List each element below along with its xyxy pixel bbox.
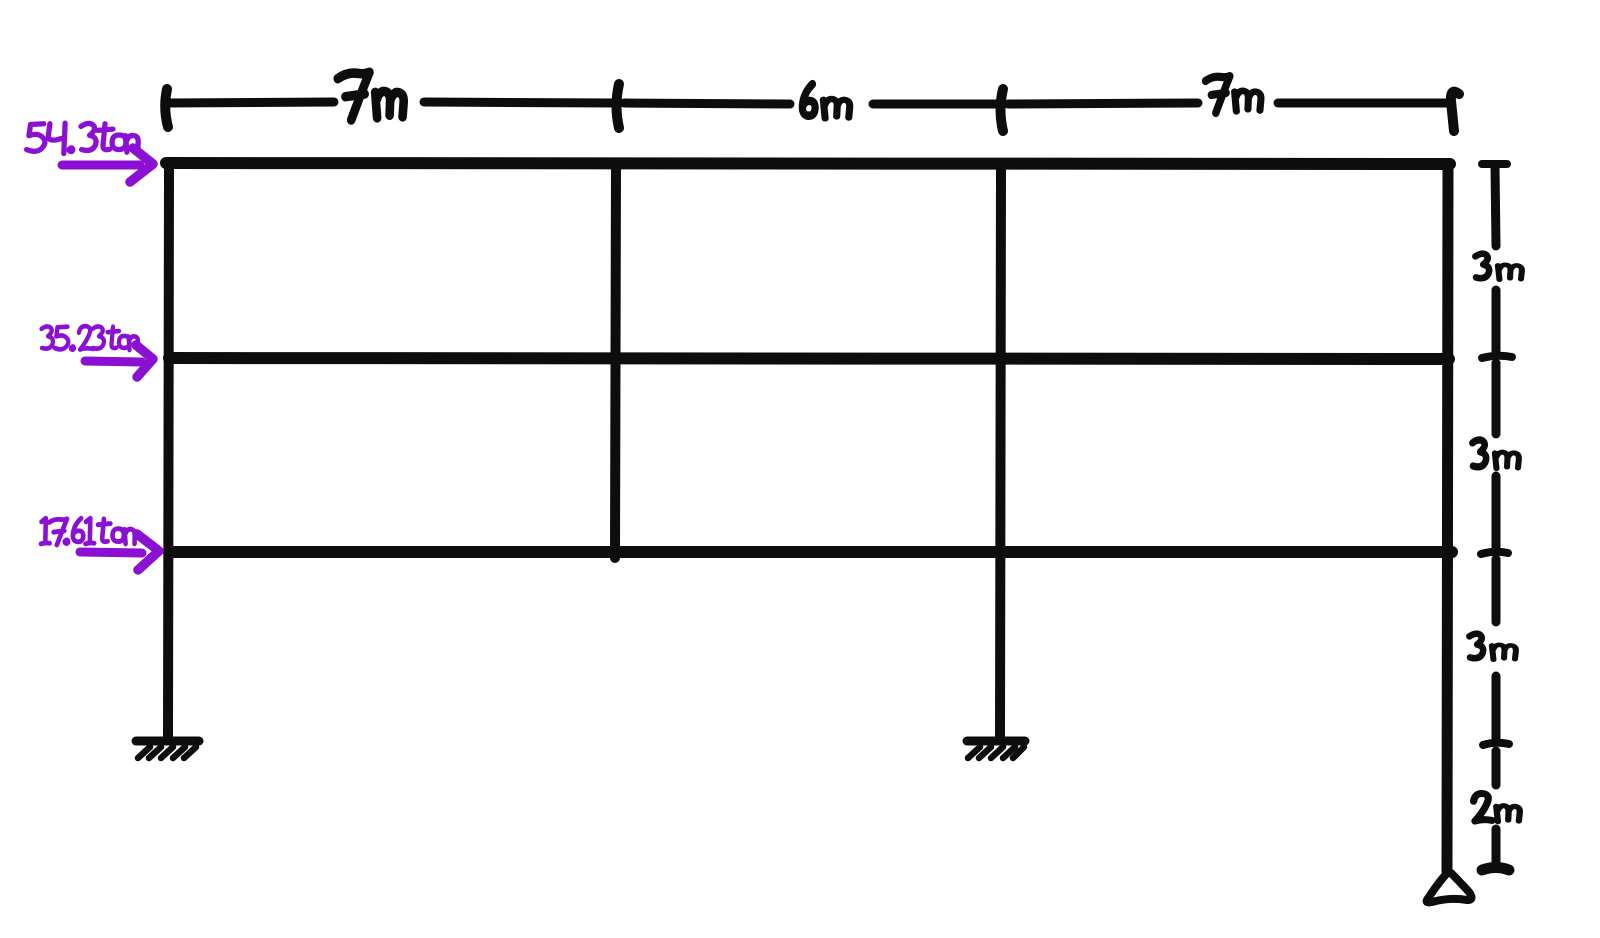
right dimension line segment 4b <box>1492 829 1501 863</box>
column C4 (right, x=1449) <box>1447 164 1448 871</box>
dimension label 3m (lower) <box>1469 634 1516 660</box>
right dimension line segment 4a <box>1492 751 1501 785</box>
load label 35.23 ton <box>42 326 139 350</box>
dimension label 6m (middle span) <box>802 84 849 118</box>
dimension label 2m <box>1474 794 1520 822</box>
right dimension line bottom cap <box>1482 868 1509 871</box>
top dimension line tick at 6m/7m <box>1001 89 1004 131</box>
right dimension line tick at ground level <box>1483 743 1509 745</box>
top dimension line tick at 7m/6m <box>617 84 620 128</box>
beam level 1 (top, y=164) <box>166 163 1450 164</box>
right dimension line segment 1a <box>1495 166 1496 246</box>
load arrow 17.61 ton <box>80 552 142 553</box>
beam level 2 (y=358) <box>169 358 1449 359</box>
beam level 3 (y=552) <box>169 546 1452 558</box>
top dimension line segment 1 <box>168 102 334 103</box>
load arrow 54.3 ton <box>62 161 140 170</box>
right dimension line segment 3b <box>1492 676 1501 738</box>
column C1 (left, x=169) <box>168 164 169 738</box>
load arrow 35.23 ton <box>85 361 142 362</box>
right dimension line tick at level 2 <box>1482 356 1512 358</box>
right dimension line segment 3a <box>1492 559 1501 622</box>
right dimension line segment 2b <box>1492 476 1501 547</box>
top dimension line left tick <box>165 89 168 127</box>
top dimension line segment 5 <box>1008 103 1198 104</box>
column C3 (x=1001) <box>1000 164 1001 738</box>
dimension label 7m (left span) <box>338 72 404 120</box>
fixed support under C3 <box>967 741 1025 758</box>
right dimension line top cap <box>1482 160 1507 168</box>
top dimension line segment 6 <box>1278 99 1450 108</box>
dimension label 3m (upper) <box>1475 254 1522 280</box>
fixed support under C1 <box>136 741 199 758</box>
top dimension line right tick <box>1451 92 1459 131</box>
right dimension line segment 2a <box>1492 363 1501 434</box>
top dimension line segment 2 <box>424 102 614 103</box>
dimension label 3m (middle) <box>1472 440 1519 469</box>
load label 17.61 ton <box>41 518 135 545</box>
right dimension line tick at level 3 <box>1481 552 1508 554</box>
pin support under C4 (triangle) <box>1427 872 1472 902</box>
top dimension line segment 4 <box>873 100 1000 109</box>
right dimension line segment 1b <box>1492 290 1501 352</box>
top dimension line segment 3 <box>624 103 790 104</box>
column C2 (x=616) <box>615 164 616 558</box>
dimension label 7m (right span) <box>1205 76 1261 113</box>
load label 54.3 ton <box>27 123 139 153</box>
